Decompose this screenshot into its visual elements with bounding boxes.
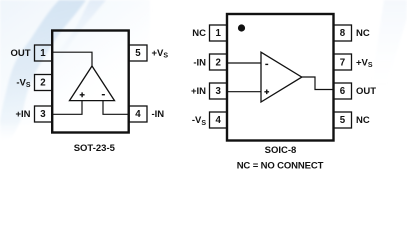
svg-text:NC: NC (356, 28, 370, 39)
svg-text:1: 1 (40, 48, 46, 59)
svg-text:SOIC-8: SOIC-8 (265, 145, 297, 156)
svg-text:3: 3 (216, 86, 222, 97)
wire pin2 to op-amp -input (SOIC-8) (227, 62, 261, 64)
pin 5 box (SOT-23-5) (129, 45, 147, 61)
wire pin3 to op-amp +input (SOT-23-5) (52, 100, 82, 114)
pin 1 box (SOT-23-5) (35, 45, 53, 61)
pin 2 box (SOIC-8) (210, 54, 228, 70)
wire pin4 to op-amp -input (SOT-23-5) (103, 100, 129, 114)
svg-text:SOT-23-5: SOT-23-5 (74, 143, 116, 154)
svg-text:1: 1 (216, 28, 222, 39)
svg-text:6: 6 (340, 86, 346, 97)
op-amp A1 minus sign (102, 94, 105, 96)
pin 1 box (SOIC-8) (210, 25, 228, 41)
pin 8 box (SOIC-8) (334, 25, 352, 41)
op-amp A1 (SOT-23-5, triangle pointing up) (70, 66, 115, 101)
package body U1 SOT-23-5 (52, 31, 129, 133)
svg-text:NC = NO CONNECT: NC = NO CONNECT (237, 160, 324, 171)
svg-text:4: 4 (216, 115, 222, 126)
svg-text:4: 4 (135, 109, 141, 120)
op-amp A2 plus sign (264, 89, 269, 94)
svg-text:2: 2 (216, 57, 221, 68)
op-amp A2 (SOIC-8, triangle pointing right) (261, 52, 302, 102)
svg-text:OUT: OUT (356, 86, 376, 97)
svg-text:+IN: +IN (15, 109, 30, 120)
svg-text:3: 3 (40, 109, 46, 120)
pin 1 dot marker (SOIC-8) (238, 24, 245, 31)
pin 4 box (SOIC-8) (210, 112, 228, 128)
wire pin1 to op-amp output (SOT-23-5) (52, 52, 92, 66)
pin 3 box (SOT-23-5) (35, 106, 53, 122)
svg-text:-IN: -IN (193, 57, 206, 68)
svg-text:7: 7 (340, 57, 345, 68)
pin 3 box (SOIC-8) (210, 83, 228, 99)
pin 4 box (SOT-23-5) (129, 106, 147, 122)
wire pin3 to op-amp +input (SOIC-8) (227, 91, 261, 93)
svg-text:2: 2 (40, 78, 45, 89)
package body U2 SOIC-8 (227, 14, 334, 141)
svg-text:NC: NC (192, 28, 206, 39)
svg-text:8: 8 (340, 28, 346, 39)
pin 6 box (SOIC-8) (334, 83, 352, 99)
svg-text:5: 5 (340, 115, 346, 126)
pin 7 box (SOIC-8) (334, 54, 352, 70)
pin 2 box (SOT-23-5) (35, 75, 53, 91)
wire op-amp output to pin 6 (SOIC-8) (302, 77, 334, 90)
op-amp A1 plus sign (80, 92, 85, 97)
op-amp A2 minus sign (265, 63, 268, 65)
svg-text:-IN: -IN (152, 109, 165, 120)
svg-text:5: 5 (135, 48, 141, 59)
pin 5 box (SOIC-8) (334, 112, 352, 128)
svg-text:NC: NC (356, 115, 370, 126)
svg-text:OUT: OUT (10, 48, 30, 59)
svg-text:+IN: +IN (191, 86, 206, 97)
